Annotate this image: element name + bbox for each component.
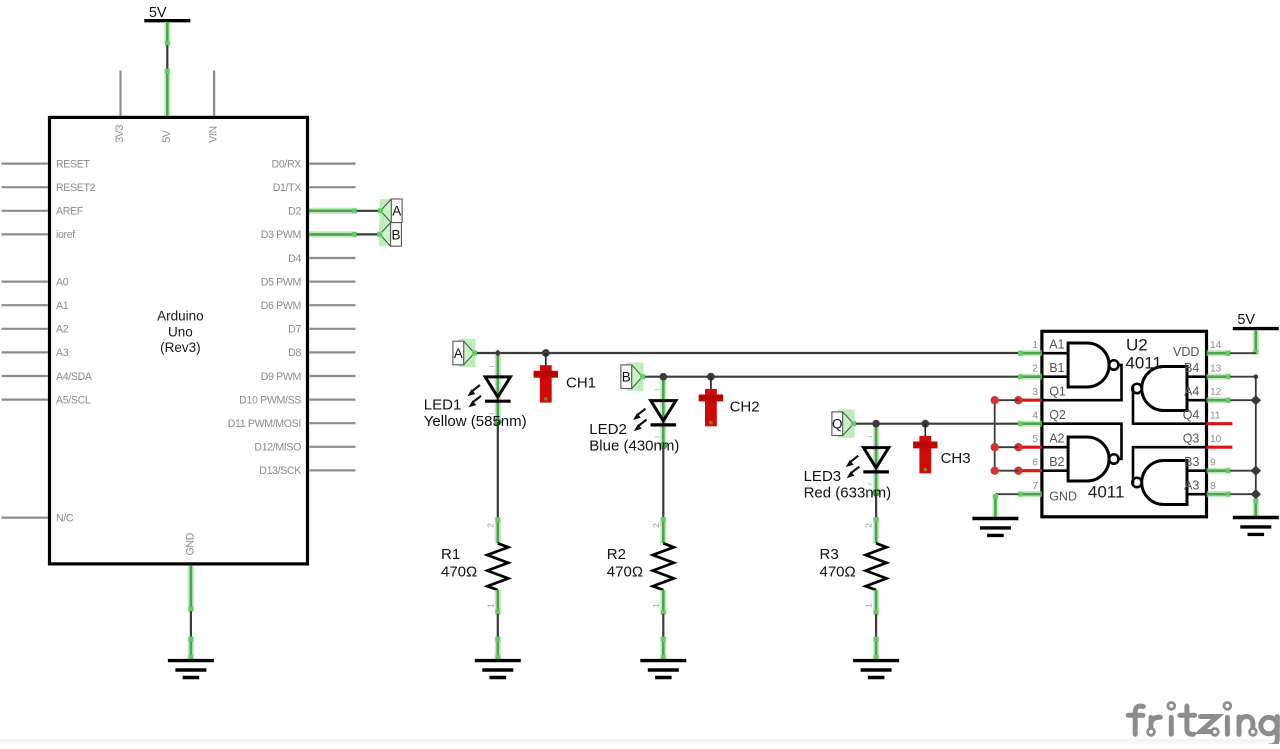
Arduino pin D9 PWM (261, 371, 356, 383)
probe CH3 (913, 420, 937, 473)
svg-text:470Ω: 470Ω (820, 564, 856, 581)
svg-text:A3: A3 (1184, 479, 1199, 493)
Arduino pin D11 PWM/MOSI (228, 418, 356, 430)
junction at A4 rail (1251, 395, 1261, 405)
resistor R1 value label (441, 546, 477, 581)
U2 type label 4011 (bottom) (1088, 482, 1125, 501)
svg-text:13: 13 (1210, 364, 1222, 375)
ground pin (below Arduino) (189, 637, 194, 660)
svg-text:D1/TX: D1/TX (273, 182, 302, 194)
svg-text:A5/SCL: A5/SCL (56, 394, 91, 406)
wire Arduino GND to ground (190, 611, 192, 637)
Arduino pin GND (185, 532, 197, 611)
svg-text:1: 1 (864, 603, 874, 608)
ground pin (left of U2) (993, 494, 998, 518)
svg-text:B2: B2 (1049, 455, 1064, 469)
svg-text:AREF: AREF (56, 206, 84, 218)
svg-text:2: 2 (864, 523, 874, 528)
Arduino pin 5V (161, 69, 173, 143)
LED3 (846, 424, 889, 496)
Arduino pin ioref (2, 229, 76, 241)
svg-text:D13/SCK: D13/SCK (259, 465, 301, 477)
Arduino pin RESET (2, 158, 91, 170)
svg-text:A: A (392, 204, 401, 219)
wire U2 A4 to rail (1230, 399, 1256, 401)
svg-text:D9 PWM: D9 PWM (261, 371, 301, 383)
svg-text:N/C: N/C (56, 512, 74, 524)
Arduino pin VIN (208, 71, 220, 143)
ground pin (below R3) (874, 637, 879, 660)
Arduino pin D5 PWM (261, 276, 356, 288)
U2 pin 5 (A2) (1014, 431, 1064, 451)
svg-text:–: – (867, 431, 872, 441)
svg-text:3: 3 (1032, 387, 1038, 398)
svg-text:B4: B4 (1184, 361, 1199, 375)
svg-text:D5 PWM: D5 PWM (261, 276, 301, 288)
resistor R2 value label (607, 546, 643, 581)
probe CH3 label (941, 450, 971, 467)
svg-text:2: 2 (1032, 364, 1038, 375)
svg-text:7: 7 (1032, 481, 1038, 492)
U2 pin 3 (Q1) (1014, 384, 1066, 404)
svg-text:CH3: CH3 (941, 450, 971, 467)
svg-text:A: A (454, 346, 463, 361)
U2 pin 6 (B2) (1014, 455, 1064, 475)
wire D3 to net label B (357, 233, 380, 235)
wire U2 GND pin to ground (995, 493, 1018, 495)
wire bend vertical Q1 to B2 (994, 400, 996, 471)
svg-text:Red (633nm): Red (633nm) (804, 485, 892, 502)
Arduino pin D4 (288, 253, 355, 265)
svg-text:D10 PWM/SS: D10 PWM/SS (239, 394, 301, 406)
ground symbol below R1 (475, 661, 521, 678)
svg-text:14: 14 (1210, 340, 1222, 351)
svg-text:D8: D8 (288, 347, 301, 359)
svg-text:D2: D2 (288, 206, 301, 218)
svg-text:5V: 5V (149, 5, 167, 21)
ground pin (right rail) (1253, 499, 1258, 518)
Arduino Uno body (50, 117, 308, 564)
svg-text:A4: A4 (1184, 385, 1199, 399)
svg-text:LED2: LED2 (589, 421, 627, 438)
Arduino pin N/C (2, 512, 74, 524)
svg-text:R3: R3 (820, 546, 839, 563)
LED3 value label (804, 468, 892, 502)
net label B (at Arduino D3) (377, 223, 401, 247)
Arduino pin D1/TX (273, 182, 356, 194)
Arduino pin 3V3 (114, 71, 126, 143)
probe CH2 label (730, 399, 760, 416)
net label B (near LED2) (621, 363, 645, 391)
svg-text:R1: R1 (441, 546, 460, 563)
svg-text:5V: 5V (1237, 312, 1255, 328)
svg-text:470Ω: 470Ω (607, 564, 643, 581)
svg-text:8: 8 (1210, 481, 1216, 492)
svg-text:Q4: Q4 (1183, 408, 1200, 422)
svg-text:CH2: CH2 (730, 399, 760, 416)
resistor R3 (864, 517, 887, 615)
svg-text:B: B (622, 370, 631, 385)
svg-text:12: 12 (1210, 387, 1222, 398)
wire R3 to ground (875, 614, 877, 637)
ground symbol below Arduino (168, 661, 214, 678)
LED1 value label (424, 396, 527, 430)
ground symbol below R3 (853, 661, 899, 678)
svg-text:10: 10 (1210, 434, 1222, 445)
svg-text:–: – (489, 361, 494, 371)
Arduino pin D13/SCK (259, 465, 355, 477)
svg-text:A0: A0 (56, 276, 69, 288)
U2 pin 14 (VDD) (1173, 340, 1231, 359)
svg-text:U2: U2 (1126, 336, 1148, 355)
svg-text:3V3: 3V3 (114, 125, 126, 143)
Arduino pin D0/RX (272, 158, 356, 170)
probe CH1 (534, 349, 558, 403)
svg-text:4011: 4011 (1088, 482, 1125, 501)
svg-text:LED1: LED1 (424, 396, 462, 413)
svg-text:D0/RX: D0/RX (272, 158, 302, 170)
wire D2 to net label A (357, 210, 381, 212)
net label A (at Arduino D2) (378, 199, 402, 223)
U2 pin 8 (A3) (1184, 479, 1230, 497)
svg-text:CH1: CH1 (566, 375, 596, 392)
svg-text:A3: A3 (56, 347, 69, 359)
svg-text:A1: A1 (1049, 337, 1064, 351)
svg-text:A1: A1 (56, 300, 69, 312)
U2 NAND gate 3 (inputs B4,A4 -> Q4) (1132, 366, 1206, 423)
Arduino pin D6 PWM (261, 300, 356, 312)
svg-text:VDD: VDD (1173, 345, 1199, 359)
wire net B: label to U2 pin 2 (643, 376, 1019, 378)
svg-text:A2: A2 (1049, 431, 1064, 445)
svg-text:D11 PWM/MOSI: D11 PWM/MOSI (228, 418, 301, 430)
svg-text:B3: B3 (1184, 455, 1199, 469)
U2 pin 1 (A1) (1018, 337, 1065, 355)
svg-text:Q1: Q1 (1049, 384, 1066, 398)
svg-text:B: B (391, 227, 400, 242)
ground pin (below R1) (495, 637, 500, 660)
wire net A: label to U2 pin 1 (475, 352, 1019, 354)
net label A (near LED1) (453, 339, 477, 367)
svg-text:GND: GND (1049, 490, 1077, 504)
wire LED3 cathode to R3 (875, 493, 877, 518)
U2 pin 2 (B1) (1018, 361, 1065, 379)
LED2 (633, 377, 676, 449)
svg-text:Q: Q (832, 417, 843, 432)
svg-text:VIN: VIN (208, 126, 220, 143)
Arduino pin A0 (2, 276, 69, 288)
Arduino pin A5/SCL (2, 394, 91, 406)
Arduino pin A1 (2, 300, 69, 312)
U2 NAND gate 4 (inputs B3,A3 -> Q3) (1132, 447, 1206, 504)
U2 NAND gate 1 (inputs A1,B1 -> Q1) (1042, 343, 1122, 400)
power symbol 5V (top left) (144, 5, 190, 46)
wire U2 B3 to rail (1230, 470, 1256, 472)
U2 pin 10 (Q3) (1183, 432, 1233, 448)
IC U2 4011 body (1042, 331, 1207, 517)
U2 pin 7 (GND) (1018, 481, 1077, 504)
svg-text:Uno: Uno (168, 324, 193, 339)
net label Q (near LED3) (832, 410, 856, 438)
svg-text:GND: GND (185, 532, 197, 555)
wire U2 VDD to 5V (1230, 352, 1256, 354)
U2 pin 11 (Q4) (1183, 408, 1233, 424)
svg-text:1: 1 (485, 603, 495, 608)
Arduino pin D2 (288, 206, 357, 218)
Arduino pin D3 PWM (261, 229, 357, 241)
wire R1 to ground (497, 614, 499, 637)
svg-text:1: 1 (1032, 340, 1038, 351)
Arduino pin D8 (288, 347, 355, 359)
svg-text:D4: D4 (288, 253, 301, 265)
svg-text:LED3: LED3 (804, 468, 842, 485)
svg-text:R2: R2 (607, 546, 626, 563)
svg-text:Blue (430nm): Blue (430nm) (589, 437, 679, 454)
wire net Q: label to U2 pin 4 (854, 423, 1019, 425)
U2 pin 13 (B4) (1184, 361, 1230, 379)
resistor R1 (485, 517, 508, 615)
power symbol 5V (right of U2) (1233, 312, 1279, 354)
svg-text:–: – (655, 384, 660, 394)
LED1 (468, 353, 511, 425)
junction red bendpoints (991, 396, 999, 475)
ground pin (below R2) (661, 637, 666, 660)
Arduino pin RESET2 (2, 182, 96, 194)
svg-text:Q3: Q3 (1183, 432, 1200, 446)
svg-text:D3 PWM: D3 PWM (261, 229, 301, 241)
U2 NAND gate 2 (inputs A2,B2 -> Q2) (1042, 424, 1122, 481)
U2 pin 12 (A4) (1184, 385, 1230, 403)
Arduino pin D7 (288, 324, 355, 336)
Arduino pin D10 PWM/SS (239, 394, 355, 406)
U2 pin 4 (Q2) (1018, 408, 1066, 426)
Arduino pin A4/SDA (2, 371, 93, 383)
wire R2 to ground (662, 614, 664, 637)
probe CH2 (699, 373, 723, 426)
Arduino pin A3 (2, 347, 69, 359)
ground symbol below R2 (640, 661, 686, 678)
wire U2 A3 to rail (1230, 493, 1256, 495)
svg-text:RESET2: RESET2 (56, 182, 96, 194)
resistor R2 (651, 517, 674, 615)
svg-text:5V: 5V (161, 129, 173, 143)
wire bend to U2 pin 6 B2 (995, 470, 1019, 472)
Arduino pin A2 (2, 324, 69, 336)
junction at LED1 anode (494, 350, 501, 357)
resistor R3 value label (820, 546, 856, 581)
rail vertical wire (inputs tie) (1255, 377, 1257, 500)
Arduino pin AREF (2, 206, 84, 218)
ground symbol below U2 GND (972, 519, 1018, 536)
svg-text:Q2: Q2 (1049, 408, 1066, 422)
LED2 value label (589, 421, 679, 455)
svg-text:A2: A2 (56, 324, 69, 336)
svg-text:D12/MISO: D12/MISO (254, 442, 301, 454)
Arduino pin D12/MISO (254, 442, 355, 454)
svg-text:9: 9 (1210, 458, 1216, 469)
junction at LED2 anode (660, 373, 668, 381)
svg-text:4: 4 (1032, 411, 1038, 422)
wire U2 B4 to rail (1230, 376, 1256, 378)
U2 pin 9 (B3) (1184, 455, 1230, 473)
svg-text:Arduino: Arduino (157, 309, 204, 324)
svg-text:Yellow (585nm): Yellow (585nm) (424, 413, 527, 430)
svg-text:470Ω: 470Ω (441, 564, 477, 581)
svg-text:4011: 4011 (1125, 354, 1162, 373)
wire 5V symbol to Arduino 5V pin (166, 45, 168, 69)
junction at B3 rail (1251, 466, 1261, 476)
footer divider bar (0, 740, 1280, 744)
svg-text:11: 11 (1210, 411, 1221, 422)
svg-text:D6 PWM: D6 PWM (261, 300, 301, 312)
junction at LED3 anode (872, 420, 880, 428)
svg-text:2: 2 (651, 523, 661, 528)
svg-text:6: 6 (1032, 458, 1038, 469)
probe CH1 label (566, 375, 596, 392)
U2 designator label (1125, 336, 1162, 373)
svg-text:ioref: ioref (56, 229, 75, 241)
svg-text:A4/SDA: A4/SDA (56, 371, 93, 383)
svg-text:(Rev3): (Rev3) (160, 340, 201, 355)
svg-text:5: 5 (1032, 434, 1038, 445)
wire LED1 cathode to R1 (497, 422, 499, 518)
ground symbol below right rail (1233, 518, 1279, 535)
svg-text:2: 2 (485, 523, 495, 528)
wire bend to U2 pin 5 A2 (995, 446, 1019, 448)
svg-text:D7: D7 (288, 324, 301, 336)
svg-text:B1: B1 (1049, 361, 1064, 375)
wire U2 Q1 to bend (995, 399, 1019, 401)
fritzing logo (1128, 703, 1277, 747)
svg-text:1: 1 (651, 603, 661, 608)
wire LED2 cathode to R2 (662, 446, 664, 518)
svg-text:RESET: RESET (56, 158, 90, 170)
junction at A3 rail (1251, 489, 1261, 499)
junction at B4 rail (1254, 374, 1259, 379)
